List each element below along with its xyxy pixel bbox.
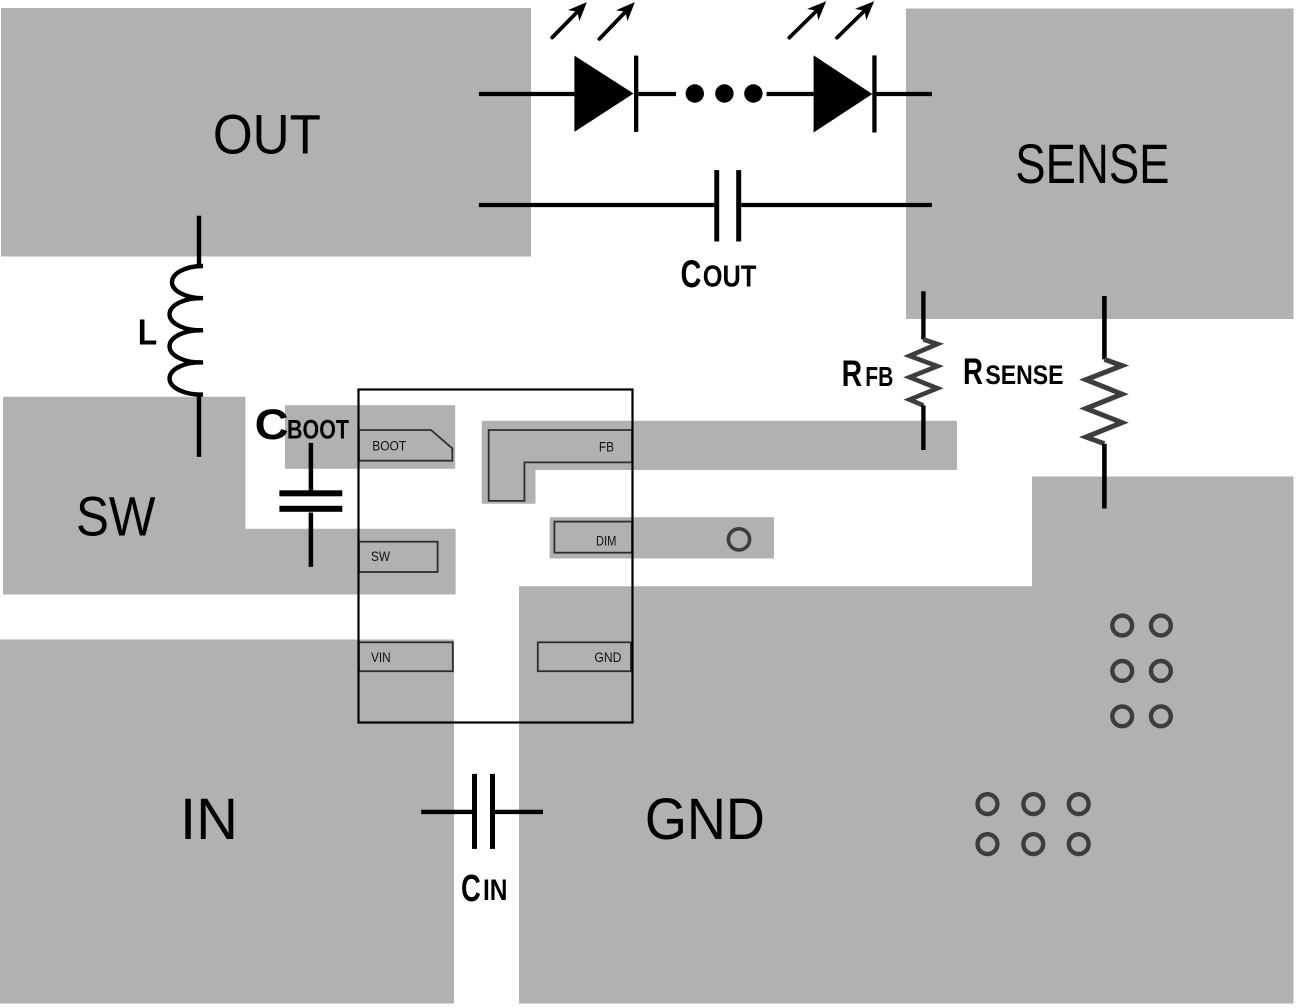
wire DIM trace pour bbox=[550, 517, 774, 558]
wire LED row bbox=[479, 92, 932, 96]
svg-text:SENSE: SENSE bbox=[985, 360, 1063, 390]
svg-text:R: R bbox=[842, 353, 863, 394]
svg-text:SENSE: SENSE bbox=[1015, 132, 1169, 195]
svg-text:OUT: OUT bbox=[703, 259, 757, 294]
resistor RSENSE bbox=[1086, 296, 1122, 509]
wire COUT row bbox=[479, 203, 932, 207]
svg-text:R: R bbox=[963, 350, 983, 392]
svg-text:C: C bbox=[255, 401, 289, 449]
svg-text:IN: IN bbox=[180, 787, 238, 852]
pin DIM pad bbox=[554, 522, 632, 553]
pin VIN pad bbox=[359, 642, 453, 671]
IC U1 body outline bbox=[359, 390, 633, 723]
inductor L bbox=[170, 216, 203, 457]
via group GND upper (2x3) bbox=[1112, 616, 1171, 727]
capacitor CBOOT bbox=[309, 443, 314, 567]
svg-text:FB: FB bbox=[599, 440, 614, 455]
diode D2 LED bbox=[814, 55, 873, 132]
wire BOOT trace pour bbox=[285, 405, 455, 469]
svg-text:C: C bbox=[681, 253, 702, 296]
svg-text:DIM: DIM bbox=[596, 534, 616, 549]
diode D1 LED bbox=[574, 56, 633, 132]
node IN copper pour bbox=[0, 640, 454, 1004]
svg-text:OUT: OUT bbox=[213, 103, 321, 166]
resistor RFB bbox=[910, 291, 938, 450]
node GND copper pour bbox=[519, 477, 1294, 1004]
svg-text:FB: FB bbox=[865, 361, 893, 392]
diode D2 light arrows bbox=[789, 1, 874, 37]
pin FB pad bbox=[489, 430, 632, 501]
svg-text:VIN: VIN bbox=[371, 650, 391, 665]
node SENSE copper pour bbox=[906, 9, 1294, 320]
svg-text:C: C bbox=[461, 868, 481, 910]
pin GND pad bbox=[538, 642, 631, 671]
capacitor CIN bbox=[421, 810, 543, 814]
svg-text:SW: SW bbox=[371, 549, 390, 564]
node SW copper pour bbox=[3, 397, 456, 595]
via on DIM trace bbox=[728, 529, 749, 550]
node dots (series LEDs) bbox=[686, 84, 704, 102]
pin SW pad bbox=[359, 542, 438, 572]
node OUT copper pour bbox=[1, 8, 531, 257]
op IC U1 pin BOOT pad bbox=[359, 430, 452, 461]
svg-text:L: L bbox=[138, 311, 158, 352]
svg-text:IN: IN bbox=[483, 874, 508, 907]
svg-text:GND: GND bbox=[645, 787, 765, 852]
wire FB trace pour bbox=[482, 421, 957, 504]
svg-text:SW: SW bbox=[76, 484, 156, 547]
svg-text:BOOT: BOOT bbox=[287, 415, 349, 445]
svg-text:GND: GND bbox=[594, 650, 621, 665]
diode D1 light arrows bbox=[552, 2, 635, 39]
svg-text:BOOT: BOOT bbox=[372, 439, 406, 454]
via group GND lower (3x2) bbox=[978, 794, 1089, 854]
capacitor COUT bbox=[714, 170, 719, 241]
